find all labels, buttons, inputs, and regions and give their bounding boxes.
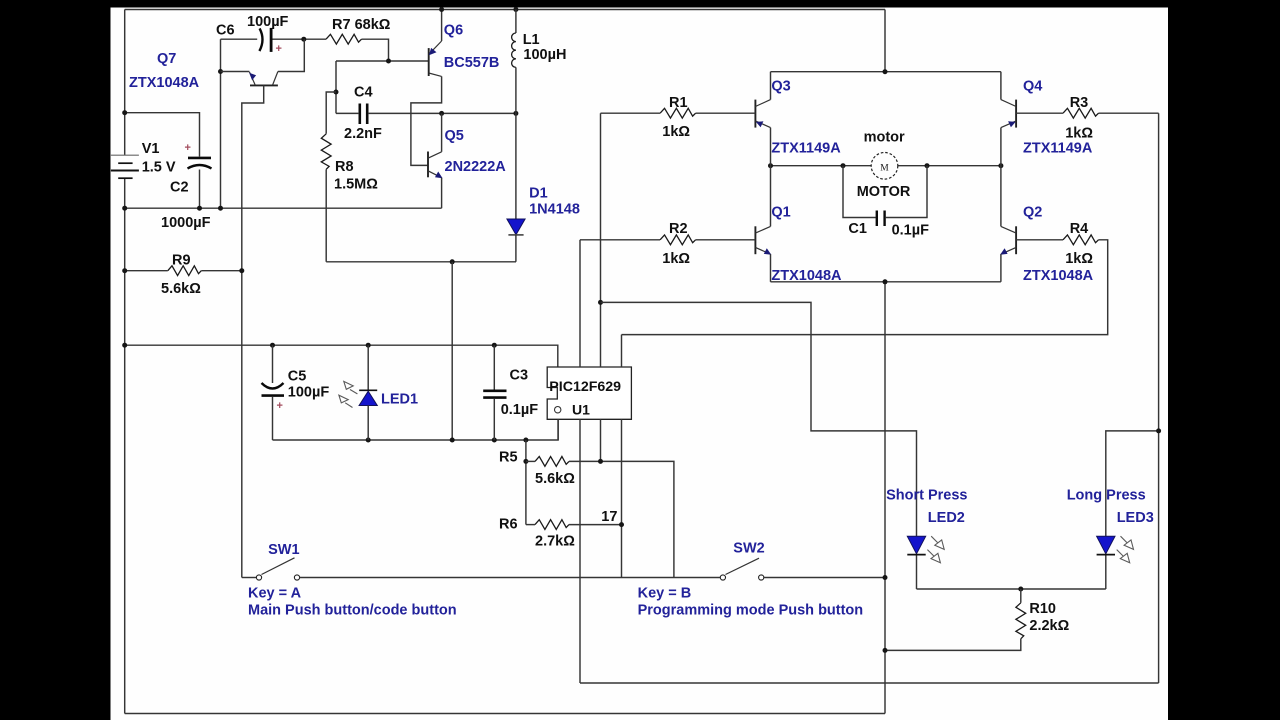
wire: C3 bottom lead [493,399,495,440]
switch SW1 [256,575,261,580]
transistor Q4 arrow [1008,121,1016,127]
junction bridge bottom center [883,279,888,284]
transistor Q3 base bar [754,100,756,128]
junction motor rail right end [998,163,1003,168]
junction right frame/LED3 [1156,428,1161,433]
wire: R6 left stub [526,524,535,526]
wire: C6 right lead to node [273,38,327,40]
IC U1 PIC12F629 package [547,367,631,419]
resistor R1 [660,108,696,118]
svg-text:1000µF: 1000µF [161,215,211,231]
wire: V1+ to C2 top [125,113,200,157]
wire: Q7 base down-left to SW1 column [242,85,264,577]
motor (component) [871,153,898,180]
wire: U1 pin column from R2 [579,240,581,367]
wire: Q2 collector vertical [1000,166,1002,227]
svg-text:ZTX1048A: ZTX1048A [771,268,842,284]
wire: R6 right lead [569,524,622,526]
svg-text:R5: R5 [499,450,518,466]
transistor Q2 upper diagonal [1001,226,1016,233]
junction left frame / C2 wire [122,110,127,115]
capacitor C1 loop wires [843,166,876,218]
transistor Q5 base bar [427,152,429,178]
svg-text:C4: C4 [354,85,373,101]
capacitor C1 [876,211,878,227]
junction main rail/C5 [270,343,275,348]
wire: R8 top hook [326,92,336,134]
wire: C5 top lead [272,345,274,383]
svg-text:Q2: Q2 [1023,205,1042,221]
svg-text:Main Push button/code button: Main Push button/code button [248,603,457,619]
wire: Q6 emitter vertical from top rail [441,10,443,42]
svg-text:SW2: SW2 [733,541,764,557]
svg-text:Q4: Q4 [1023,78,1042,94]
LED1 emission arrows [339,381,358,407]
svg-text:C2: C2 [170,180,189,196]
junction C6/R7/Q7-collector [301,37,306,42]
capacitor C4 [358,104,361,125]
wire: motor rail right [898,165,1001,167]
wire: Q7 collector to C6 node [278,39,304,71]
wire: L1 to D1 [515,67,517,219]
resistor R10 (vertical) [1016,603,1026,639]
junction R10 top [1018,587,1023,592]
wire: LED1 bottom lead [367,406,369,441]
wire: R2 corner [580,239,660,241]
wire: Q6 collector down and over to Q5 base [411,76,442,165]
svg-text:Short Press: Short Press [886,488,967,504]
LED LED1 (pointing up) [359,389,377,391]
wire: R5 right lead to SW2 column [569,461,674,577]
svg-text:Q3: Q3 [771,78,790,94]
transistor Q1 arrow [764,248,772,254]
junction C6-branch/rail [218,206,223,211]
inductor L1 [512,33,516,67]
svg-text:R3: R3 [1070,95,1089,111]
wire: LED bottom rail [917,588,1106,590]
wire: R10 top lead [1020,589,1022,603]
junction R8 tap [334,90,339,95]
resistor R9 [168,266,202,276]
junction main rail/LED1 [366,343,371,348]
resistor R5 [535,457,569,467]
resistor R3 [1063,108,1099,118]
junction C4/Q5-collector [439,111,444,116]
svg-text:100µF: 100µF [288,385,330,401]
junction lower rail/LED1 [366,438,371,443]
wire: SW2 to center column [764,577,885,579]
wire: LED2 bottom lead [916,556,918,590]
wire: U1 pin to R5 [600,419,602,461]
wire: LED2 branch from U1 [601,302,917,536]
wire: Q4 collector vertical [1000,128,1002,166]
junction R5/U1-pin [598,459,603,464]
svg-text:R1: R1 [669,95,688,111]
wire: R4 right lead to U1 line [622,240,1108,335]
wire: L1 top lead [515,10,517,34]
transistor Q7 emitter diagonal [249,72,255,85]
svg-text:1kΩ: 1kΩ [662,124,690,140]
svg-text:M: M [880,163,889,173]
resistor R6 [535,520,569,530]
junction motor rail left end [768,163,773,168]
junction bridge top center [883,69,888,74]
transistor Q5 emitter diagonal [428,171,442,178]
wire: left frame vertical (battery branch) [124,10,126,156]
svg-text:R9: R9 [172,253,191,269]
battery V1 [111,154,139,156]
wire: SW1 left stub [242,577,257,579]
svg-text:5.6kΩ: 5.6kΩ [535,471,575,487]
resistor R8 (vertical) [321,134,331,170]
wire: SW1 to SW2 [300,577,721,579]
svg-text:R10: R10 [1029,601,1056,617]
junction lower rail/R5 tap [523,438,528,443]
junction main rail/C3 [492,343,497,348]
transistor Q1 lower diagonal [755,247,770,254]
svg-text:2.2kΩ: 2.2kΩ [1029,618,1069,634]
wire: top supply rail [125,9,885,11]
wire: R2 right lead [696,239,756,241]
svg-text:V1: V1 [142,141,160,157]
svg-text:R6: R6 [499,517,518,533]
transistor Q6 base bar [428,48,430,76]
wire: R10 bottom lead to center column [885,639,1021,651]
capacitor C5 (electrolytic) [262,383,284,389]
svg-text:Q6: Q6 [444,23,463,39]
wire: R5 left stub [526,460,535,462]
wire: right frame vertical [1158,113,1160,683]
wire: R4 left lead [1016,239,1063,241]
svg-text:0.1µF: 0.1µF [892,223,930,239]
wire: lower rail [273,419,559,440]
svg-text:R4: R4 [1070,221,1089,237]
svg-text:17: 17 [601,509,617,525]
svg-text:D1: D1 [529,185,548,201]
svg-text:C6: C6 [216,23,235,39]
resistor R7 [326,34,362,44]
wire: main rail (V+ distribution) [125,345,558,367]
wire: bridge bottom rail [771,281,1001,283]
svg-text:BC557B: BC557B [444,55,500,71]
transistor Q4 upper diagonal [1001,100,1016,107]
junction motor right terminal [925,163,930,168]
svg-text:Q5: Q5 [445,128,464,144]
svg-text:U1: U1 [572,402,590,418]
junction Q7 emitter node [218,69,223,74]
wire: R1 left lead [601,112,661,114]
wire: R5 tap vertical [525,440,527,525]
junction R6/pin17 column [619,522,624,527]
svg-text:Q7: Q7 [157,51,176,67]
svg-text:C3: C3 [510,367,529,383]
junction left frame/R9 [122,268,127,273]
wire: U1 pin column from R4 line [621,335,623,367]
svg-text:Long Press: Long Press [1067,488,1146,504]
wire: C3 top lead [493,345,495,390]
transistor Q4 lower diagonal [1001,121,1016,128]
wire: R8/D1 bottom link [326,261,516,263]
transistor Q2 base bar [1015,226,1017,254]
svg-text:1.5 V: 1.5 V [142,160,176,176]
svg-text:2.2nF: 2.2nF [344,126,382,142]
capacitor C3 [483,389,506,392]
wire: Q1 collector vertical [770,166,772,227]
svg-text:motor: motor [864,130,905,146]
wire: R7 right lead and drop [362,39,389,61]
wire: Q1 emitter vertical [770,254,772,282]
wire: U1 pin to lower rail [557,419,559,440]
svg-text:1N4148: 1N4148 [529,202,580,218]
transistor Q2 lower diagonal [1001,247,1016,254]
wire: drop to lower rail [451,262,453,440]
svg-text:ZTX1048A: ZTX1048A [1023,268,1094,284]
wire: Q5 collector vertical [441,113,443,151]
transistor Q3 lower diagonal [755,121,770,128]
resistor R2 [660,235,696,245]
svg-text:LED3: LED3 [1117,510,1154,526]
wire: R1 right lead [696,112,756,114]
svg-text:Key = B: Key = B [638,586,692,602]
wire: Q4 emitter vertical [1000,72,1002,100]
svg-text:R8: R8 [335,159,354,175]
wire: U1 pin 17 column [621,419,623,577]
junction C4-rail/L1-D1 column [513,111,518,116]
wire: C2 bottom lead [199,170,201,209]
svg-text:1kΩ: 1kΩ [1065,251,1093,267]
svg-text:+: + [277,400,283,412]
junction left frame/main rail [122,343,127,348]
svg-text:Q1: Q1 [771,205,790,221]
wire: LED1 top lead [367,345,369,390]
svg-text:+: + [185,142,191,154]
wire: U1 pin column to bottom inner rail [579,419,581,683]
junction C2/rail [197,206,202,211]
junction R10/center column [883,648,888,653]
junction lower rail/drop [450,438,455,443]
transistor Q1 upper diagonal [755,226,770,233]
junction R5 node [523,459,528,464]
wire: Q2 emitter vertical [1000,254,1002,282]
svg-text:LED2: LED2 [928,510,965,526]
transistor Q7 base bar [250,84,278,86]
junction SW2/center column [883,575,888,580]
transistor Q4 base bar [1015,100,1017,128]
wire: C5 bottom lead [272,397,274,440]
junction lower rail/C3 [492,438,497,443]
transistor Q7 collector diagonal [273,72,278,86]
wire: motor rail left [771,165,872,167]
wire: Q3 collector vertical [770,128,772,166]
wire: top rail drop to H-bridge [884,10,886,72]
svg-text:LED1: LED1 [381,392,418,408]
wire: H-bridge center vertical to bottom frame [884,282,886,714]
LED LED2 (pointing down) [907,536,925,554]
wire: R9 left lead [125,270,168,272]
transistor Q3 arrow [756,121,764,127]
transistor Q5 emitter arrow [435,172,443,179]
svg-text:ZTX1149A: ZTX1149A [771,140,841,156]
wire: Q5 emitter vertical to rail [441,178,443,209]
svg-text:1kΩ: 1kΩ [662,251,690,267]
svg-text:+: + [276,43,282,55]
capacitor C6 (electrolytic, horizontal) [259,28,262,51]
transistor Q3 upper diagonal [755,100,770,107]
junction bottom-link/drop [450,259,455,264]
junction top rail/L1 [513,7,518,12]
wire: bottom inner rail (PIC to right frame) [580,682,1159,684]
LED LED3 (pointing down) [1097,536,1115,554]
svg-text:Key = A: Key = A [248,586,302,602]
svg-text:Programming mode Push button: Programming mode Push button [638,603,864,619]
transistor Q2 arrow [1000,248,1008,254]
wire: U1 pin column from R1 [600,113,602,367]
svg-text:2.7kΩ: 2.7kΩ [535,534,575,550]
diode D1 (pointing down) [507,219,525,235]
wire: C6 left lead [221,38,258,40]
transistor Q1 base bar [754,226,756,254]
wire: bridge top rail [771,71,1001,73]
junction motor left terminal [841,163,846,168]
junction R9/Q7-base column [239,268,244,273]
junction R1-column/LED2 branch [598,300,603,305]
wire: R9 right lead [201,270,242,272]
transistor Q7 emitter arrow [249,73,256,81]
wire: D1 cathode down and left to link [515,235,517,262]
junction on left frame at rail [122,206,127,211]
svg-text:1kΩ: 1kΩ [1065,126,1093,142]
svg-text:ZTX1048A: ZTX1048A [129,75,200,91]
wire: LED3 bottom lead [1105,556,1107,590]
svg-text:100µF: 100µF [247,14,289,30]
svg-text:2N2222A: 2N2222A [445,159,507,175]
svg-text:MOTOR: MOTOR [857,184,911,200]
svg-text:100µH: 100µH [523,47,566,63]
capacitor C2 (electrolytic) [188,157,211,160]
wire: R8 bottom lead [325,169,327,261]
svg-text:ZTX1149A: ZTX1149A [1023,140,1093,156]
transistor Q5 collector diagonal [428,152,442,158]
wire: negative rail y=208 [125,207,442,209]
svg-text:C5: C5 [288,369,307,385]
wire: Q7 emitter branch vertical [220,39,222,208]
transistor Q6 emitter arrow [429,48,437,55]
svg-text:5.6kΩ: 5.6kΩ [161,281,201,297]
svg-text:1.5MΩ: 1.5MΩ [334,177,378,193]
wire: C4 rail [336,112,359,114]
wire: LED3 top lead [1106,431,1159,536]
wire: Q7 emitter wire [221,71,250,73]
resistor R4 [1063,235,1099,245]
svg-text:R2: R2 [669,221,688,237]
transistor Q6 collector diagonal [429,73,442,76]
junction R7/Q6-base [386,59,391,64]
switch SW2 [720,575,725,580]
wire: Q6 base line [336,60,428,62]
wire: bottom frame [125,713,885,715]
svg-text:PIC12F629: PIC12F629 [549,379,621,395]
wire: node column x=336 [335,61,337,113]
LED3 emission arrows [1117,536,1134,563]
svg-text:C1: C1 [848,221,867,237]
transistor Q6 emitter diagonal [429,41,442,54]
wire: R3 left lead [1016,112,1063,114]
svg-text:L1: L1 [523,32,540,48]
wire: R3 right lead to right frame [1099,112,1159,114]
svg-text:R7 68kΩ: R7 68kΩ [332,17,391,33]
wire: Q3 emitter vertical [770,72,772,100]
svg-text:0.1µF: 0.1µF [501,402,539,418]
svg-text:SW1: SW1 [268,542,299,558]
junction top rail/Q6 [439,7,444,12]
LED2 emission arrows [927,536,944,563]
